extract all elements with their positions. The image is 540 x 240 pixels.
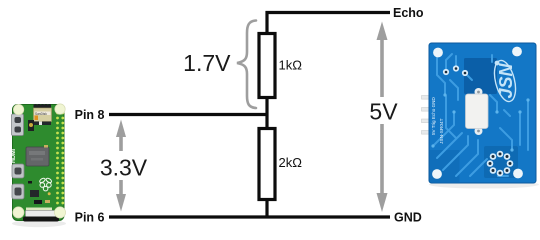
svg-text:1kΩ: 1kΩ xyxy=(279,58,303,73)
svg-text:5V Trig Echo GND: 5V Trig Echo GND xyxy=(431,97,436,135)
wire: Echo top horizontal wire xyxy=(266,11,391,14)
component: JSN copper trace pattern xyxy=(433,54,528,176)
svg-text:5V: 5V xyxy=(369,99,398,125)
svg-text:1.7V: 1.7V xyxy=(183,50,231,76)
brace: 1.7V curly brace across R1 xyxy=(237,21,256,109)
svg-text:JSN-SR04T: JSN-SR04T xyxy=(439,118,445,144)
component: RPi SD card xyxy=(34,108,52,122)
svg-text:2kΩ: 2kΩ xyxy=(279,155,303,170)
wire: Pin 6 / GND bottom horizontal wire xyxy=(109,215,390,218)
component: JSN logo xyxy=(491,58,520,103)
wire: vertical from Echo wire to R1 top xyxy=(265,11,268,35)
component: JSN darker solder regions xyxy=(464,58,497,94)
component: RPi mini-HDMI port xyxy=(12,114,24,136)
component: RPi raspberry logo silkscreen xyxy=(39,177,52,191)
component: JSN top-left pads xyxy=(443,65,468,76)
svg-text:3.3V: 3.3V xyxy=(100,155,148,181)
arrow: 3.3V double-headed arrow between Pin 8 and Pin 6 wires xyxy=(116,120,126,212)
svg-text:HDMI: HDMI xyxy=(11,148,17,163)
wire: R2 bottom to GND wire xyxy=(265,199,268,218)
board: JSN-SR04T ultrasonic module (back side) xyxy=(422,43,537,183)
svg-text:GND: GND xyxy=(394,211,422,225)
component: RPi microSD slot comb xyxy=(34,104,52,110)
component: JSN trace vias xyxy=(431,53,529,151)
component: RPi Broadcom SoC xyxy=(26,147,49,166)
component: RPi micro-USB port 2 (PWR) xyxy=(12,184,24,199)
component: RPi GPIO hole columns xyxy=(56,112,64,205)
arrow: 5V double-headed arrow between Echo and GND wires xyxy=(377,22,388,213)
component: JSN mounting holes xyxy=(433,48,443,58)
component: JSN transducer footprint pads xyxy=(487,151,514,177)
board: JSN PCB substrate xyxy=(429,43,536,183)
component: RPi micro-USB port 1 xyxy=(12,164,24,178)
svg-text:Pin 8: Pin 8 xyxy=(75,108,105,122)
wire: Pin 8 horizontal wire to divider junction xyxy=(109,113,269,116)
svg-text:Echo: Echo xyxy=(393,6,424,20)
component: JSN header pins protruding xyxy=(422,96,433,135)
shadow: under JSN-SR04T board xyxy=(429,181,539,189)
svg-text:SanDisk: SanDisk xyxy=(35,112,47,116)
svg-text:Pin 6: Pin 6 xyxy=(75,210,105,224)
component: RPi passives xyxy=(28,120,34,131)
component: RPi camera connector xyxy=(26,208,52,211)
component: RPi mounting holes xyxy=(13,104,23,114)
board: RPi PCB substrate xyxy=(13,105,65,221)
resistor R2 2kΩ xyxy=(259,129,275,200)
component: JSN central transducer bracket xyxy=(475,88,483,96)
board: Raspberry Pi Zero xyxy=(11,104,66,222)
component: RPi small IC xyxy=(30,190,39,197)
wire: R1 bottom to junction node xyxy=(265,98,268,130)
shadow: under Raspberry Pi board xyxy=(12,220,66,227)
resistor R1 1kΩ xyxy=(259,34,275,98)
